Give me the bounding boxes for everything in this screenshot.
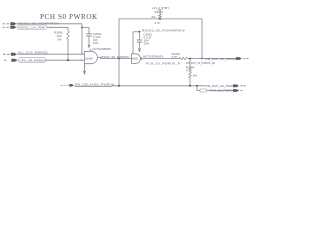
- series jumper to second output: [197, 86, 200, 91]
- svg-text:10%: 10%: [93, 41, 99, 45]
- svg-text:PCH_S0_PWROK_R: PCH_S0_PWROK_R: [146, 62, 181, 66]
- wire long vertical x119: [118, 19, 120, 86]
- wire pull-up drop right: [201, 19, 203, 59]
- node bottom net x119: [118, 85, 120, 87]
- off-page connector left: RSVD1_S0_PCHPWROK: [3, 22, 61, 26]
- output connector right row2 bottom: [210, 89, 243, 93]
- svg-text:RSVD_S0_PWROK: RSVD_S0_PWROK: [101, 55, 129, 59]
- wire gate1 input1: [17, 53, 84, 55]
- resistor R2083: [152, 10, 164, 25]
- svg-text:CPU_VR_PWRGD: CPU_VR_PWRGD: [20, 58, 47, 62]
- svg-text:RSVD1_CLK_PM#: RSVD1_CLK_PM#: [19, 26, 45, 30]
- wire net2 top: [47, 26, 68, 28]
- gate U2661 buffer: [128, 54, 147, 64]
- svg-text:4.7K: 4.7K: [186, 69, 192, 73]
- op-amp gate U2660 AND: [81, 49, 102, 68]
- svg-text:R2083: R2083: [155, 10, 164, 14]
- svg-text:5%: 5%: [152, 15, 157, 19]
- svg-text:3: 3: [85, 66, 87, 68]
- off-page connector left: CPU_VR_PWRGD (boxed): [4, 58, 46, 63]
- node pull-up drop on output net: [118, 58, 120, 60]
- node bottom net jumper tap: [196, 85, 198, 87]
- output connector right row1 bottom: [206, 84, 246, 88]
- wire output net right segment: [187, 58, 236, 60]
- resistor R2443 series: [172, 52, 188, 60]
- off-page connector left: RSVD1_CLK_PM (boxed): [3, 25, 48, 30]
- wire gate1 output: [97, 57, 100, 59]
- wire vertical net1 drop: [81, 24, 83, 54]
- wire gate2 output to edge: [142, 58, 179, 60]
- off-page connector left: ALL_SYS_PWRGD: [3, 51, 48, 56]
- svg-text:U2660: U2660: [85, 56, 93, 60]
- capacitor C2660: [86, 28, 101, 45]
- svg-text:5%: 5%: [193, 74, 198, 78]
- svg-text:4.7K: 4.7K: [155, 21, 161, 25]
- power net +V3.3 STBY: [152, 6, 170, 10]
- ground arrow below C2660: [88, 45, 91, 49]
- wire power stub mid: [133, 31, 140, 33]
- svg-text:PM_DELAYED_PWROK: PM_DELAYED_PWROK: [75, 82, 115, 86]
- output connector right: PM_PCH_S0_PWROK (top): [206, 57, 249, 61]
- ground arrow below U2660 pin3: [84, 64, 86, 71]
- resistor R2084 pulldown: [186, 58, 216, 86]
- wire net1 top: [17, 23, 83, 25]
- ground arrow below C2661: [138, 48, 141, 53]
- node R2656 to input2: [67, 59, 69, 61]
- wire gate1 input2: [46, 59, 84, 61]
- off-page connector bottom: PM_SLP_S3#_PWROK: [61, 82, 116, 86]
- node C2661 tap: [139, 31, 141, 33]
- svg-text:10%: 10%: [144, 42, 150, 46]
- resistor R2656: [54, 27, 69, 60]
- wire pull-up rail: [119, 18, 202, 20]
- node pull-up right on output net: [201, 58, 203, 60]
- wire VCC drop to U2661: [132, 32, 134, 54]
- capacitor C2661: [137, 32, 153, 48]
- svg-text:U2661: U2661: [131, 57, 139, 61]
- node rail R2083: [159, 18, 161, 20]
- wire stub to C2660: [82, 27, 89, 29]
- svg-text:5%: 5%: [58, 38, 63, 42]
- svg-text:NC7SZ08M5X: NC7SZ08M5X: [143, 54, 164, 58]
- svg-text:4.7K: 4.7K: [172, 55, 178, 59]
- svg-text:NC7SZ08M5X: NC7SZ08M5X: [93, 47, 112, 51]
- node T net1 to cap: [81, 27, 83, 29]
- svg-text:PM_PCH_S0_PWROK: PM_PCH_S0_PWROK: [206, 57, 239, 61]
- node bottom net R2084: [189, 85, 191, 87]
- wire bottom net: [75, 85, 206, 88]
- svg-text:PCH S0 PWROK: PCH S0 PWROK: [40, 13, 98, 21]
